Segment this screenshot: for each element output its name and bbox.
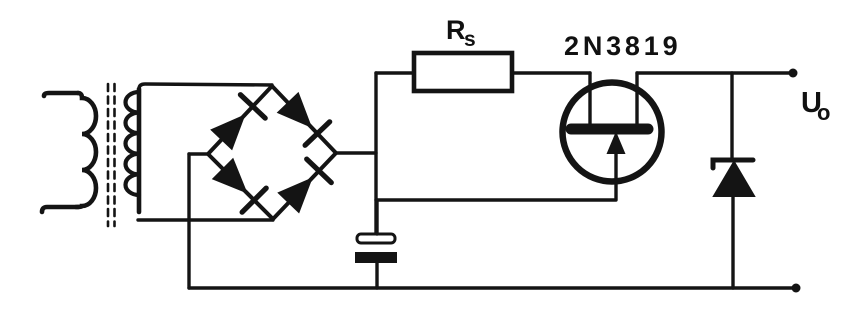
transformer core (108, 84, 115, 226)
label Rs (446, 15, 476, 51)
label Uo (801, 87, 830, 125)
svg-text:s: s (464, 28, 476, 51)
wire bridge left corner to ground branch (189, 152, 208, 155)
wire bottom bus (189, 286, 796, 289)
output terminal top (789, 69, 798, 78)
output terminal bottom (792, 284, 801, 293)
diode D4 bar (307, 159, 332, 183)
wire zener top lead (730, 73, 733, 158)
transformer secondary winding spine (137, 89, 142, 212)
transformer primary top lead (44, 93, 78, 96)
bridge diamond edges (208, 86, 336, 219)
transistor Q1 gate arrowhead (608, 134, 624, 153)
wire resistor to JFET drain (512, 71, 590, 74)
capacitor C1 top lead (375, 200, 378, 234)
svg-text:2N3819: 2N3819 (564, 31, 681, 61)
wire gate to bus (376, 198, 616, 201)
transformer secondary winding scallops (126, 92, 140, 195)
transistor Q1 2N3819 circle (563, 83, 662, 182)
transformer primary bottom lead (42, 207, 78, 212)
diode D3 bar (242, 188, 266, 212)
capacitor C1 bottom plate (355, 252, 397, 263)
diode D1 bar (240, 95, 265, 118)
diode D3 arrow (213, 159, 246, 192)
transistor Q1 drain lead (588, 73, 591, 126)
wire secondary bottom lead to bridge bottom node (138, 218, 273, 221)
svg-text:o: o (817, 100, 830, 125)
diode D1 arrow (212, 116, 245, 150)
wire top rail right segment (637, 71, 794, 74)
svg-text:R: R (446, 15, 466, 45)
diode D2 bar (305, 122, 330, 146)
capacitor C1 top plate (357, 234, 395, 243)
transistor Q1 source lead (635, 73, 638, 126)
capacitor C1 bottom lead (375, 263, 378, 288)
zener diode bar (713, 160, 753, 168)
diode D2 arrow (278, 93, 311, 127)
diode D4 arrow (279, 179, 312, 213)
transistor Q1 gate lead (614, 148, 617, 199)
transistor Q1 channel bar (571, 124, 648, 135)
transformer primary winding (76, 93, 96, 207)
wire ground branch vertical (187, 154, 190, 288)
wire zener bottom lead (731, 196, 734, 288)
wire positive bus vertical (374, 73, 377, 233)
zener diode triangle (714, 162, 754, 196)
resistor Rs body (414, 53, 512, 91)
wire secondary top lead to bridge top node (139, 84, 272, 89)
wire bridge right corner to positive bus (336, 151, 376, 154)
wire top rail left segment (376, 71, 414, 74)
